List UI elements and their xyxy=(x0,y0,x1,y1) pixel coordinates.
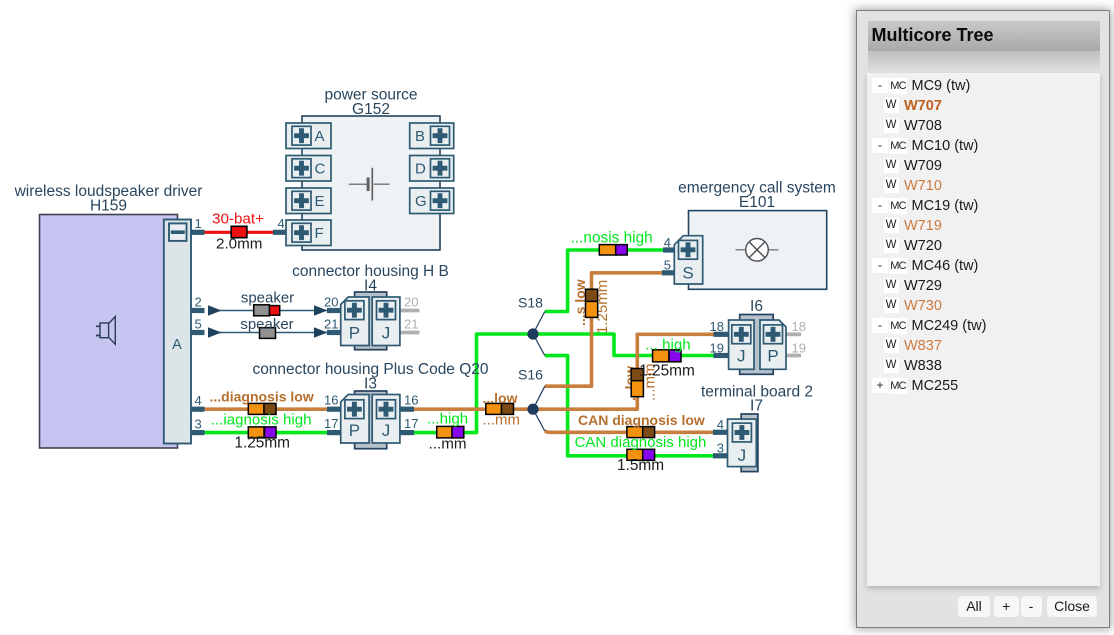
E101 pin numbers xyxy=(664,235,671,273)
wire: green S18 upper branch to E101 pin4 xyxy=(545,250,664,312)
H159 minus icon xyxy=(169,223,187,241)
connector I7 housing J xyxy=(728,419,757,467)
brown+orange blocks on vertical wire to E101 pin5 xyxy=(586,289,598,317)
G152 pin G xyxy=(410,188,454,214)
tree node W707 xyxy=(867,96,1100,116)
label 2.0mm xyxy=(216,235,262,252)
lamp symbol xyxy=(736,239,779,262)
svg-text:5: 5 xyxy=(195,317,202,332)
connector I6 housing J xyxy=(729,320,754,369)
wire: speaker thin wire pin5 to I4 pin21 xyxy=(208,327,330,338)
splice S16 node and branch lines xyxy=(527,386,544,431)
label ...mm at I3 right xyxy=(429,436,467,453)
orange+purple blocks on wire to E101 pin4 xyxy=(599,245,627,255)
svg-text:I6: I6 xyxy=(750,298,763,315)
label ...mm under ...low xyxy=(483,412,521,429)
wire: green I3 pin17 to S18 splice xyxy=(413,334,533,433)
component H159 wireless loudspeaker driver xyxy=(40,215,178,449)
svg-text:J: J xyxy=(382,324,391,343)
orange+brown blocks on diagnosis low wire xyxy=(248,403,276,414)
label CAN diagnosis high xyxy=(575,434,707,451)
tree node MC255 xyxy=(867,376,1100,396)
svg-text:... high: ... high xyxy=(645,337,690,354)
svg-text:I3: I3 xyxy=(364,376,377,393)
svg-text:17: 17 xyxy=(404,416,418,431)
label 30-bat+ xyxy=(212,211,264,228)
label terminal board 2 / I7 title xyxy=(701,384,813,415)
svg-text:G152: G152 xyxy=(352,101,390,118)
svg-text:P: P xyxy=(349,324,360,343)
tree node W838 xyxy=(867,356,1100,376)
svg-text:17: 17 xyxy=(324,416,338,431)
connector I4 housing J xyxy=(372,297,400,346)
component G152 power source xyxy=(302,116,440,250)
label H159 title xyxy=(14,183,203,215)
G152 pin A xyxy=(286,123,331,149)
wire: orange S16 upper branch to E101 pin5 xyxy=(545,273,663,386)
rotated label 1.25mm vertical xyxy=(594,280,611,334)
svg-text:20: 20 xyxy=(324,295,338,310)
battery symbol xyxy=(349,168,390,201)
rotated label ...s low xyxy=(572,279,588,326)
svg-text:21: 21 xyxy=(324,317,338,332)
H159 pin numbers xyxy=(195,216,202,432)
connector I4 grey tab xyxy=(355,292,387,350)
orange+brown blocks right of I3 pin16 xyxy=(486,403,514,414)
wire: green H159 pin3 to I3 pin17 (diagnosis high) xyxy=(203,431,328,435)
label 1.25mm at I6 pin19 xyxy=(639,363,695,380)
component E101 emergency call system xyxy=(689,211,827,290)
G152 pin E xyxy=(286,188,331,214)
label I3 title xyxy=(252,361,488,393)
orange+brown blocks on CAN diagnosis low wire xyxy=(627,427,655,438)
grey unconnected stubs I4 right xyxy=(400,311,801,356)
svg-text:1.25mm: 1.25mm xyxy=(639,363,695,380)
orange+purple blocks on wire to I6 pin19 xyxy=(653,350,681,362)
orange+purple blocks right of I3 pin17 xyxy=(437,426,464,438)
H159 pin strip A xyxy=(164,220,191,444)
orange+purple blocks on diagnosis high wire xyxy=(248,427,276,438)
svg-text:speaker: speaker xyxy=(240,316,293,333)
svg-text:5: 5 xyxy=(664,258,671,273)
I6 pin numbers xyxy=(710,319,806,356)
I7 pin numbers xyxy=(717,417,724,456)
svg-text:S: S xyxy=(682,264,693,283)
tree node W719 xyxy=(867,216,1100,236)
tree node MC10 xyxy=(867,136,1100,156)
label 1.25mm left xyxy=(234,435,290,452)
label S16 xyxy=(518,367,543,383)
svg-text:E: E xyxy=(315,193,325,210)
svg-text:16: 16 xyxy=(404,393,418,408)
svg-text:4: 4 xyxy=(664,235,671,250)
svg-text:J: J xyxy=(382,421,391,440)
button Close xyxy=(1047,596,1097,617)
label S18 xyxy=(518,295,543,311)
connector I3 housing J xyxy=(372,395,400,444)
svg-text:...nosis high: ...nosis high xyxy=(571,230,653,247)
svg-text:16: 16 xyxy=(324,393,338,408)
G152 pin D xyxy=(410,156,454,182)
label ...iagnosis high xyxy=(211,412,312,429)
label I6 title xyxy=(750,298,763,315)
svg-text:CAN diagnosis low: CAN diagnosis low xyxy=(578,412,705,428)
label CAN diagnosis low xyxy=(578,412,705,428)
svg-text:1.5mm: 1.5mm xyxy=(617,457,664,474)
connector I6 grey tab xyxy=(740,315,774,375)
tree node W720 xyxy=(867,236,1100,256)
G152 pin B xyxy=(410,123,454,149)
connector I4 housing P xyxy=(341,297,369,346)
multicore tree panel window xyxy=(856,10,1110,628)
svg-text:A: A xyxy=(172,337,182,353)
svg-text:I4: I4 xyxy=(364,278,377,295)
label G152 title xyxy=(324,87,417,119)
rotated label ...low at I6 wire xyxy=(622,366,638,401)
svg-text:P: P xyxy=(349,421,360,440)
label speaker pin5 xyxy=(240,316,293,333)
svg-text:...diagnosis low: ...diagnosis low xyxy=(210,389,314,405)
wire: speaker thin wire pin2 to I4 pin20 xyxy=(208,305,330,316)
red seal block on 30-bat+ wire xyxy=(231,226,247,237)
panel title bar xyxy=(868,21,1100,51)
tree node MC19 xyxy=(867,196,1100,216)
tree node W710 xyxy=(867,176,1100,196)
svg-text:speaker: speaker xyxy=(241,290,294,307)
tree node MC249 xyxy=(867,316,1100,336)
tree node MC9 xyxy=(867,76,1100,96)
speaker symbol inside H159 xyxy=(96,317,115,345)
wire: green S18 to I6 pin19 xyxy=(533,334,715,356)
svg-text:...mm: ...mm xyxy=(483,412,521,429)
svg-text:19: 19 xyxy=(792,341,806,356)
svg-text:S18: S18 xyxy=(518,295,543,311)
button minus xyxy=(1021,596,1042,617)
wire: orange S16 lower branch to I7 pin4 (CAN diagnosis low) xyxy=(545,431,714,432)
button All xyxy=(958,596,990,617)
connector I3 grey tab xyxy=(355,391,387,449)
svg-text:3: 3 xyxy=(717,441,724,456)
svg-text:CAN diagnosis high: CAN diagnosis high xyxy=(575,434,707,451)
label ...high at I3 right xyxy=(427,411,468,428)
label 1.5mm xyxy=(617,457,664,474)
svg-text:20: 20 xyxy=(404,295,418,310)
button plus xyxy=(994,596,1019,617)
svg-text:19: 19 xyxy=(710,341,724,356)
G152 pin C xyxy=(286,156,331,182)
brown+orange blocks on vertical wire to I6 pin18 xyxy=(631,369,643,397)
svg-text:2.0mm: 2.0mm xyxy=(216,235,262,252)
tree node W837 xyxy=(867,336,1100,356)
svg-text:J: J xyxy=(738,446,747,465)
svg-text:1: 1 xyxy=(195,216,202,231)
svg-text:F: F xyxy=(315,225,324,242)
label ...low right of I3 pin16 xyxy=(483,390,518,406)
svg-text:21: 21 xyxy=(404,317,418,332)
tree node W709 xyxy=(867,156,1100,176)
connector I3 housing P xyxy=(341,395,369,444)
connector I6 housing P xyxy=(760,320,786,369)
label ... high at I6 pin19 xyxy=(645,337,690,354)
wire: green S18 lower branch to I7 pin3 (CAN diagnosis high) xyxy=(545,356,714,456)
svg-text:C: C xyxy=(315,161,326,178)
tree node W708 xyxy=(867,116,1100,136)
svg-text:30-bat+: 30-bat+ xyxy=(212,211,264,228)
teal wire stubs at connectors xyxy=(191,232,729,455)
svg-text:S16: S16 xyxy=(518,367,543,383)
label 4 at G152 pin F xyxy=(278,216,285,231)
tree node MC46 xyxy=(867,256,1100,276)
svg-text:J: J xyxy=(737,347,746,366)
svg-text:B: B xyxy=(415,128,425,145)
tree list xyxy=(867,73,1100,586)
svg-text:...high: ...high xyxy=(427,411,468,428)
svg-text:18: 18 xyxy=(792,319,806,334)
I4 pin numbers xyxy=(324,295,418,332)
svg-text:A: A xyxy=(315,128,325,145)
tree node W730 xyxy=(867,296,1100,316)
svg-text:4: 4 xyxy=(717,417,724,432)
wire: orange H159 pin4 to I3 pin16 (diagnosis low) xyxy=(203,407,328,411)
G152 pin F xyxy=(286,220,331,246)
svg-text:...mm: ...mm xyxy=(429,436,467,453)
label E101 title xyxy=(678,180,836,212)
label I4 title xyxy=(292,263,449,295)
wire: orange S16 to I6 pin18 xyxy=(533,334,715,409)
svg-text:3: 3 xyxy=(195,417,202,432)
connector I7 grey tab xyxy=(741,414,758,472)
svg-text:2: 2 xyxy=(195,295,202,310)
grey block on speaker wire pin5 xyxy=(260,328,276,339)
svg-text:1.25mm: 1.25mm xyxy=(234,435,290,452)
svg-text:I7: I7 xyxy=(750,398,763,415)
splice S18 node and branch lines xyxy=(527,312,544,356)
I3 pin numbers xyxy=(324,393,418,432)
svg-text:G: G xyxy=(415,193,427,210)
svg-text:18: 18 xyxy=(710,319,724,334)
svg-text:4: 4 xyxy=(278,216,285,231)
svg-text:E101: E101 xyxy=(739,194,775,211)
orange+purple blocks on CAN diagnosis high wire xyxy=(627,449,655,460)
grey+red blocks on speaker wire pin2 xyxy=(254,305,280,316)
E101 connector S xyxy=(674,236,702,284)
svg-text:D: D xyxy=(415,161,426,178)
label speaker pin2 xyxy=(241,290,294,307)
svg-text:H159: H159 xyxy=(90,198,127,215)
label ...nosis high xyxy=(571,230,653,247)
tree node W729 xyxy=(867,276,1100,296)
svg-text:P: P xyxy=(767,347,778,366)
label ...diagnosis low xyxy=(210,389,314,405)
rotated label ...mm at I6 wire xyxy=(642,364,659,402)
svg-text:...iagnosis high: ...iagnosis high xyxy=(211,412,312,429)
wire: orange I3 pin16 to S16 splice xyxy=(413,407,533,411)
svg-text:...low: ...low xyxy=(483,390,518,406)
svg-text:4: 4 xyxy=(195,393,202,408)
wire: red 30-bat+ H159 pin1 to G152 pin F xyxy=(203,231,274,234)
